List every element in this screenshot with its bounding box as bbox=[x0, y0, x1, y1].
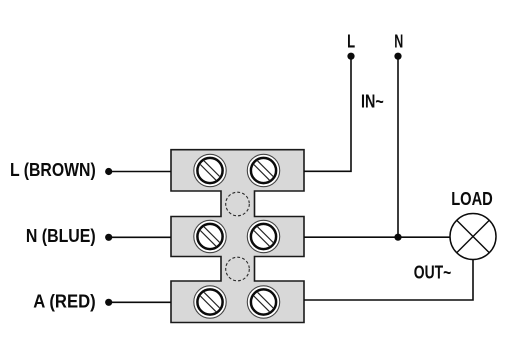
node dot L(BROWN) bbox=[105, 168, 112, 175]
svg-text:N (BLUE): N (BLUE) bbox=[26, 225, 96, 246]
svg-text:A (RED): A (RED) bbox=[33, 291, 95, 312]
svg-text:IN~: IN~ bbox=[361, 91, 384, 112]
wire N(BLUE) to strip bbox=[109, 236, 171, 238]
screw terminal row1 right bbox=[247, 154, 279, 186]
svg-text:OUT~: OUT~ bbox=[414, 262, 452, 283]
mounting hole (dashed) lower bbox=[226, 257, 250, 281]
wire A(RED) to strip bbox=[109, 301, 171, 303]
node dot L input bbox=[347, 53, 354, 60]
node dot A(RED) bbox=[105, 299, 112, 306]
junction dot N/lamp bbox=[394, 234, 401, 241]
node dot N input bbox=[394, 53, 401, 60]
svg-text:L (BROWN): L (BROWN) bbox=[10, 159, 96, 180]
screw terminal row3 left bbox=[194, 286, 226, 318]
wire lamp to row3 bbox=[304, 260, 473, 301]
mounting hole (dashed) upper bbox=[226, 192, 250, 216]
svg-text:N: N bbox=[394, 31, 403, 52]
screw terminal row2 right bbox=[247, 220, 279, 252]
screw terminal row1 left bbox=[194, 154, 226, 186]
lamp LOAD bbox=[450, 214, 496, 260]
wire N input down to junction bbox=[397, 56, 399, 237]
wire row2 to lamp bbox=[304, 236, 450, 238]
node dot N(BLUE) bbox=[105, 234, 112, 241]
svg-text:LOAD: LOAD bbox=[451, 188, 493, 209]
screw terminal row3 right bbox=[247, 286, 279, 318]
screw terminal row2 left bbox=[194, 220, 226, 252]
svg-text:L: L bbox=[347, 31, 355, 52]
wire L input down to row1 bbox=[304, 56, 351, 171]
wire L(BROWN) to strip bbox=[109, 171, 171, 173]
terminal strip TB1 body bbox=[171, 150, 304, 323]
